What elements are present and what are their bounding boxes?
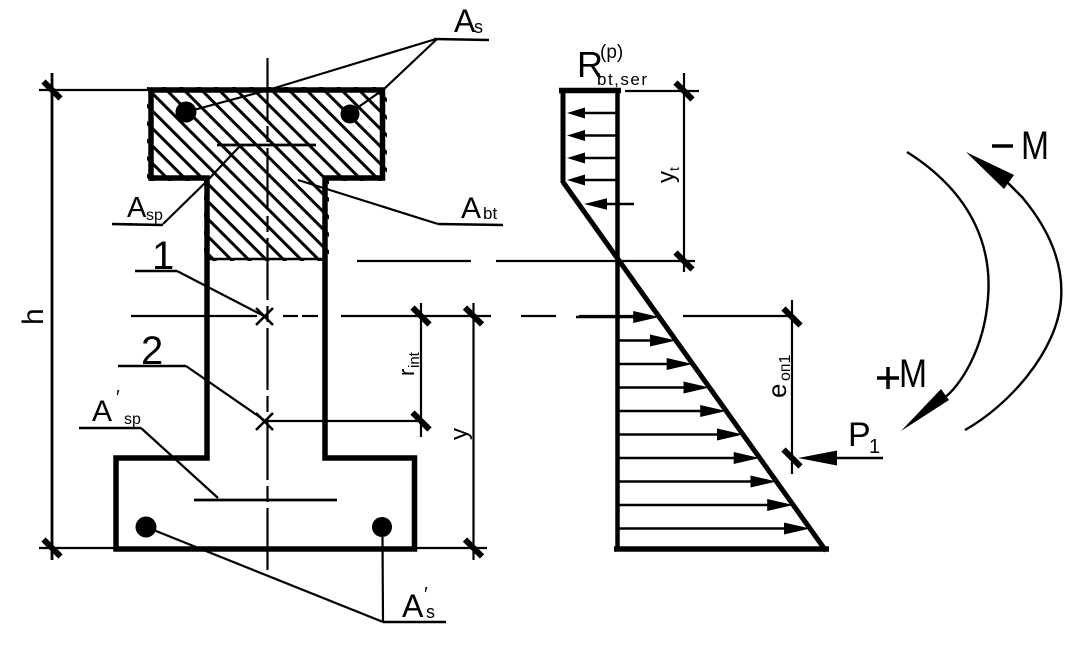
svg-text:r: r [394,369,419,376]
svg-text:A: A [92,395,112,428]
rebar dot As left [176,102,197,123]
stress diagram bottom edge [614,546,829,552]
extension line top [39,89,149,91]
svg-text:M: M [899,352,927,396]
beam outline (top flange, web, bottom flange) [116,90,415,549]
label y_t (rotated) [653,167,682,183]
svg-text:e: e [762,384,792,398]
label y (rotated) [446,428,473,440]
dimension h line [51,73,54,560]
rebar dot A's left [136,517,157,538]
P1 force arrow [833,457,883,460]
leader 2 [186,366,264,420]
dimension tick marks [44,82,801,557]
svg-text:sp: sp [124,411,141,428]
svg-text:P: P [848,416,871,454]
+M arrowhead [901,389,949,431]
svg-text:M: M [1021,124,1049,168]
right stress arrows [576,311,810,535]
cross marker point 1 [256,308,273,325]
svg-text:A: A [461,192,481,225]
stress diagram slant line [563,182,826,551]
dimension r_int line [420,303,422,437]
leader A's diagonal [151,529,383,622]
svg-text:A: A [127,192,147,224]
svg-text:s: s [426,602,435,622]
svg-text:′: ′ [116,387,120,409]
hatch bottom boundary (zero stress line in web) [205,258,327,260]
cross marker point 2 [256,413,273,430]
left stress arrows [567,108,634,210]
leader lines for As [186,39,436,112]
concrete hatching (tension zone) [135,0,395,494]
horizontal zero-stress line (y=261) [357,260,695,262]
svg-text:1: 1 [869,436,880,458]
Asp bar symbol in flange [217,144,316,147]
svg-text:A: A [454,3,476,39]
extension line bottom [39,547,114,549]
label r_int (rotated) [394,351,423,376]
leader Asp [163,147,239,224]
horizontal centroid line 1 (y=316) [131,315,792,317]
svg-text:h: h [17,308,50,325]
stress diagram top edge [559,88,621,94]
rebar dot A's right [372,517,392,537]
svg-text:bt: bt [483,204,497,223]
svg-text:int: int [406,351,423,368]
svg-text:y: y [446,428,473,440]
svg-text:оп1: оп1 [777,354,794,381]
A'sp bar symbol in bottom flange [194,499,337,502]
svg-text:bt,ser: bt,ser [597,70,649,89]
dimension e_op1 line [791,300,793,474]
leader 1 [177,271,264,316]
leader Abt [298,180,438,224]
vertical centerline [266,58,268,575]
horizontal line at point 2 (y=421) [268,420,419,422]
-M arrowhead [966,152,1014,189]
-M moment arc [965,197,1061,430]
rebar dot As right [341,105,360,124]
label +M [877,376,899,380]
extension line bottom right [417,547,487,549]
svg-text:y: y [653,171,680,183]
dimension y_t line [683,73,685,272]
stress diagram baseline [615,88,620,551]
svg-text:sp: sp [146,207,163,224]
label -M [992,144,1013,148]
extension line for y_t top [625,90,699,92]
svg-text:t: t [666,167,682,171]
label e_op1 (rotated) [762,354,794,398]
dimension y line [472,303,474,560]
stress diagram left edge [561,88,566,183]
leader A's vertical [381,537,384,622]
svg-text:s: s [474,17,483,37]
+M moment arc [907,152,989,398]
svg-text:A: A [402,588,424,624]
svg-text:(p): (p) [600,42,623,63]
leader A'sp [141,428,218,498]
